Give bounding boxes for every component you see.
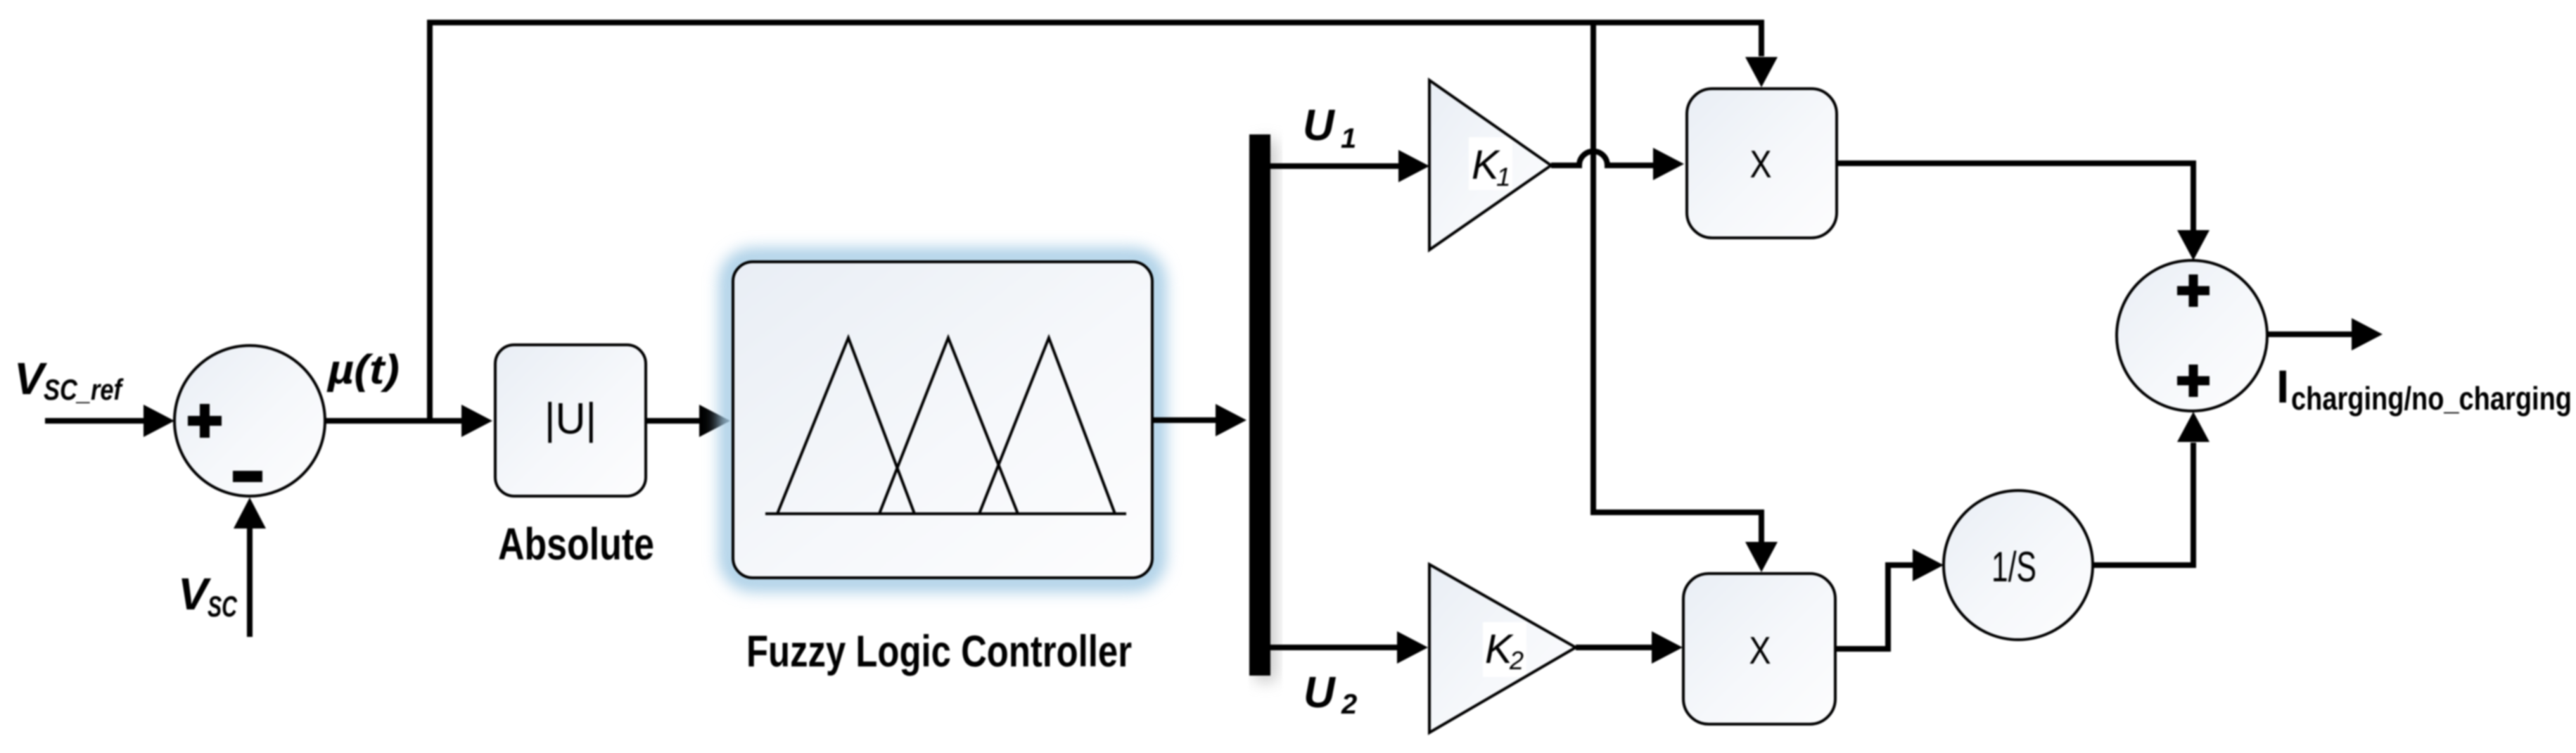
wire X2 to integrator [1835,565,1914,649]
svg-text:1/S: 1/S [1991,543,2036,590]
arrow into gain K1 [1398,150,1429,182]
membership triangle 1 [777,338,914,514]
svg-text:SC: SC [208,590,237,623]
gain K2 triangle [1429,564,1576,733]
block |U| absolute value [495,345,646,496]
arrow into X2 [1652,631,1683,664]
svg-text:V: V [178,569,212,619]
summing junction S2 [2117,260,2267,411]
svg-text:U: U [1303,101,1336,150]
wire K2 to X2 [1576,645,1653,650]
plus sign top in S2 [2177,274,2210,307]
svg-text:I: I [2276,360,2289,412]
block Fuzzy Logic Controller [733,262,1152,578]
arrow into S1 bottom [234,498,266,529]
svg-text:V: V [14,353,48,404]
svg-text:1: 1 [1496,163,1511,191]
arrow into summing junction S1 [144,405,174,437]
wire Vsc input [247,528,253,637]
membership triangle 3 [979,338,1115,514]
arrow into Absolute block [461,405,492,437]
summing junction S1 [174,346,325,496]
block Fuzzy Logic Controller glow [729,258,1156,582]
arrow into X1 [1653,148,1684,180]
wire Vsc_ref input [45,418,149,424]
wire Absolute to FLC [646,418,701,424]
wire integrator to S2 bottom [2093,443,2193,565]
arrow output [2352,318,2383,350]
svg-text:Fuzzy Logic Controller: Fuzzy Logic Controller [746,627,1132,676]
wire top feedback: from mu(t) branch up and across [430,23,1761,421]
arrow into S2 top [2177,230,2210,260]
svg-text:Absolute: Absolute [498,519,654,569]
demux bar [1249,134,1270,676]
minus sign in S1 [233,471,262,482]
multiplier X2 [1683,574,1835,724]
integrator 1/S [1944,491,2093,640]
wire S2 output [2267,331,2353,337]
wire X1 to S2 [1837,163,2193,231]
membership triangle 2 [879,338,1018,514]
plus sign bottom in S2 [2177,365,2210,397]
wire FLC to demux bar [1152,417,1217,423]
arrow into gain K2 [1397,631,1428,664]
svg-text:SC_ref: SC_ref [44,373,124,406]
multiplier X1 [1687,89,1837,238]
wire tap vertical to lower multiplier [1593,23,1761,543]
svg-text:charging/no_charging: charging/no_charging [2291,380,2572,417]
wire S1 to Absolute [325,418,464,424]
arrow into S2 bottom [2177,412,2210,442]
svg-text:X: X [1750,142,1772,186]
wire K1 to X1 with hop over tap [1551,151,1654,165]
membership function baseline [765,512,1126,515]
wire U2 from bar to K2 [1270,645,1398,650]
svg-text:X: X [1749,628,1771,672]
arrow into multiplier X2 top [1745,542,1778,572]
svg-text:|U|: |U| [544,395,597,443]
svg-text:2: 2 [1509,646,1524,675]
demux bar shadow [1255,140,1276,681]
svg-text:U: U [1303,669,1337,717]
arrow into demux bar [1216,404,1246,436]
wire U1 from bar to K1 [1270,163,1400,169]
arrow into multiplier X1 top [1745,57,1778,87]
svg-text:2: 2 [1341,689,1357,720]
arrow into integrator 1/S [1913,549,1944,581]
gain K1 triangle [1429,80,1551,250]
plus sign in S1 [188,404,222,438]
svg-text:1: 1 [1341,123,1356,154]
arrow into FLC [699,405,730,437]
svg-text:µ(t): µ(t) [326,347,400,393]
